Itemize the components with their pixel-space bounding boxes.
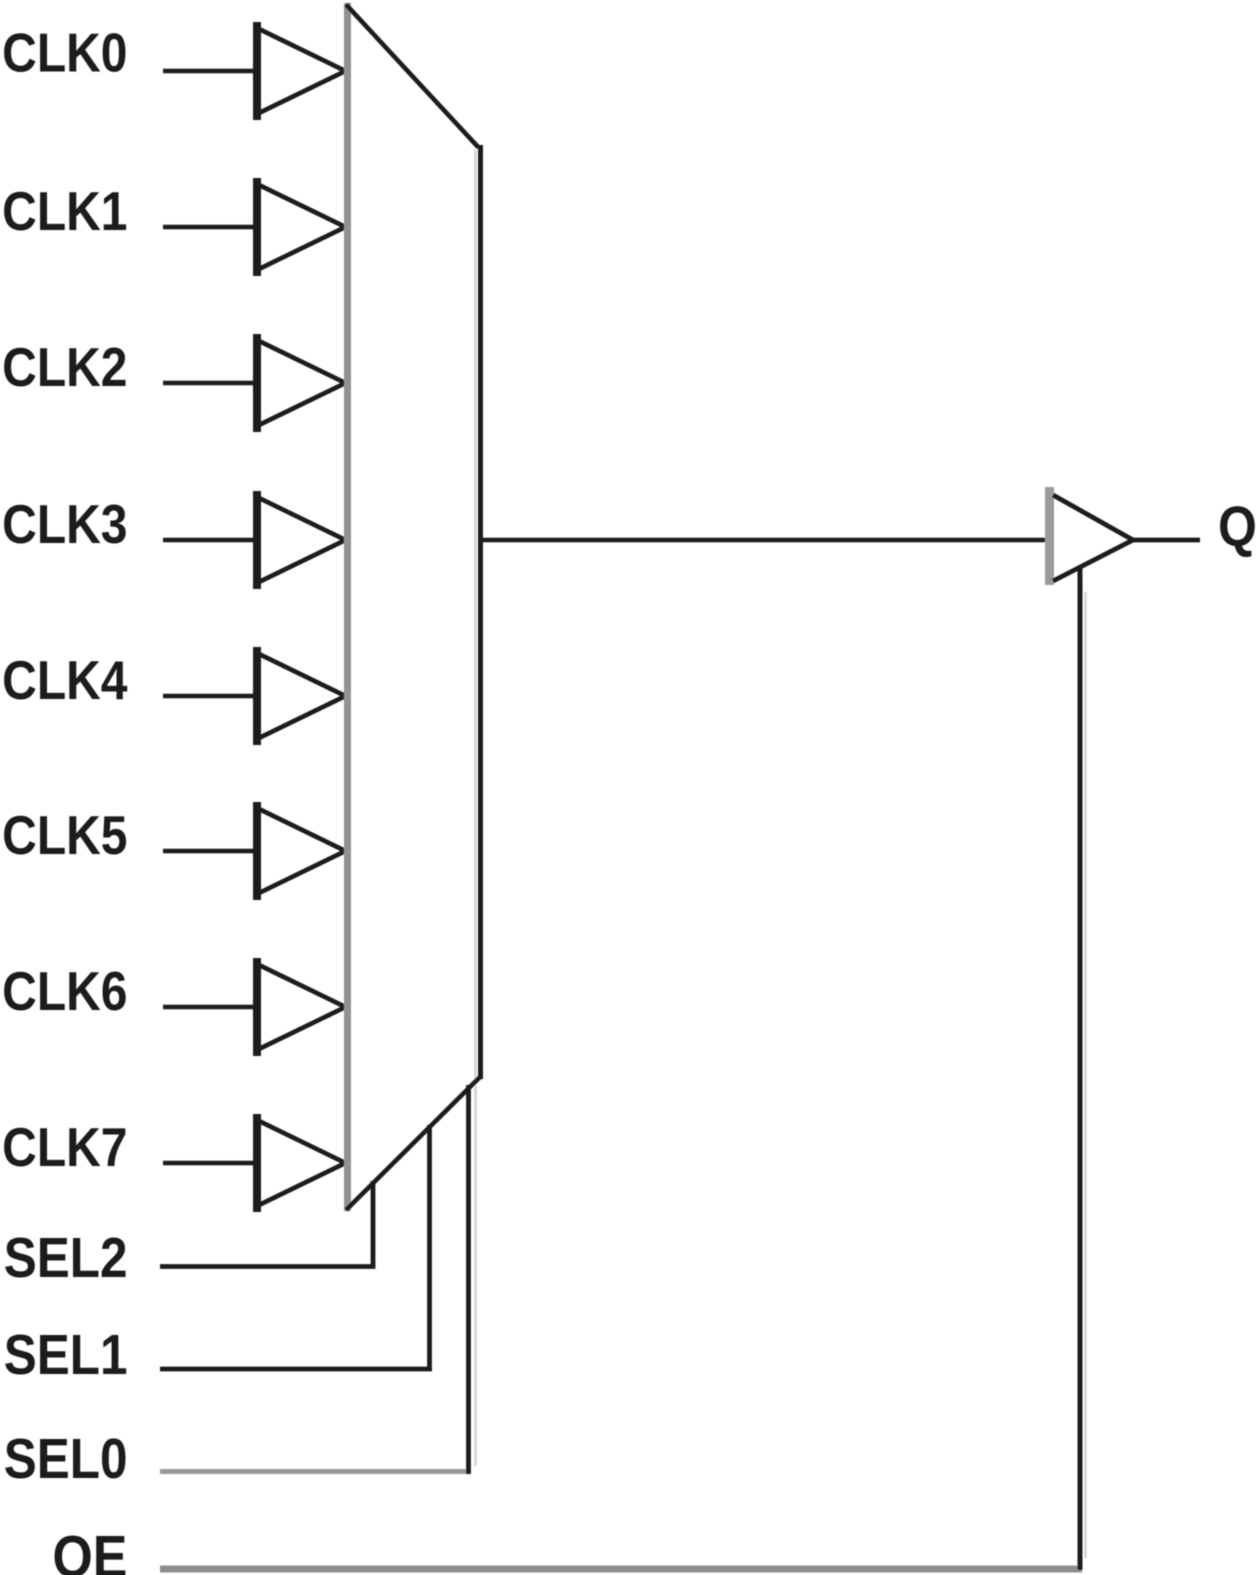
svg-text:SEL2: SEL2 bbox=[4, 1227, 128, 1290]
svg-text:CLK7: CLK7 bbox=[2, 1116, 127, 1178]
wire CLK2 input bbox=[163, 381, 257, 386]
svg-text:CLK6: CLK6 bbox=[2, 960, 127, 1022]
wire SEL1 bbox=[160, 1125, 432, 1371]
wire mux output to buffer bbox=[480, 538, 1047, 543]
buffer CLK3 bbox=[257, 491, 346, 589]
output buffer input bar (gray) bbox=[1045, 487, 1054, 585]
svg-text:SEL0: SEL0 bbox=[4, 1428, 128, 1491]
wire OE vertical bbox=[1078, 567, 1083, 1570]
buffer CLK2 bbox=[257, 334, 346, 432]
wire SEL0 vertical bbox=[466, 1085, 471, 1474]
wire CLK3 input bbox=[163, 538, 257, 543]
output buffer triangle bbox=[1053, 495, 1133, 581]
wire CLK1 input bbox=[163, 225, 257, 230]
svg-text:CLK2: CLK2 bbox=[2, 336, 127, 398]
wire OE horizontal gray bbox=[160, 1566, 1082, 1573]
mux top slant edge bbox=[346, 5, 479, 148]
mux right edge bbox=[478, 145, 483, 1079]
svg-text:CLK0: CLK0 bbox=[2, 22, 127, 84]
buffer CLK0 bbox=[257, 22, 346, 120]
wire CLK7 input bbox=[163, 1161, 257, 1166]
svg-text:OE: OE bbox=[52, 1524, 127, 1575]
buffer CLK4 bbox=[257, 647, 346, 745]
wire CLK4 input bbox=[163, 694, 257, 699]
wire OE vertical light companion bbox=[1084, 592, 1087, 1558]
buffer CLK7 bbox=[257, 1114, 346, 1212]
wire SEL2 bbox=[160, 1181, 375, 1269]
wire SEL0 horizontal gray bbox=[160, 1469, 471, 1474]
svg-text:Q: Q bbox=[1218, 495, 1256, 559]
svg-text:CLK1: CLK1 bbox=[2, 180, 127, 242]
mux left edge bbox=[344, 3, 351, 1211]
svg-text:CLK3: CLK3 bbox=[2, 493, 127, 555]
svg-text:CLK4: CLK4 bbox=[2, 649, 128, 711]
mux bottom slant edge bbox=[346, 1077, 480, 1210]
wire CLK0 input bbox=[163, 69, 257, 74]
wire CLK5 input bbox=[163, 849, 257, 854]
wire CLK6 input bbox=[163, 1005, 257, 1010]
svg-text:SEL1: SEL1 bbox=[4, 1324, 128, 1387]
buffer CLK5 bbox=[257, 802, 346, 900]
buffer CLK1 bbox=[257, 178, 346, 276]
buffer CLK6 bbox=[257, 958, 346, 1056]
svg-text:CLK5: CLK5 bbox=[2, 804, 127, 866]
wire Q output bbox=[1133, 538, 1200, 543]
mux right edge light companion bbox=[474, 150, 477, 1466]
